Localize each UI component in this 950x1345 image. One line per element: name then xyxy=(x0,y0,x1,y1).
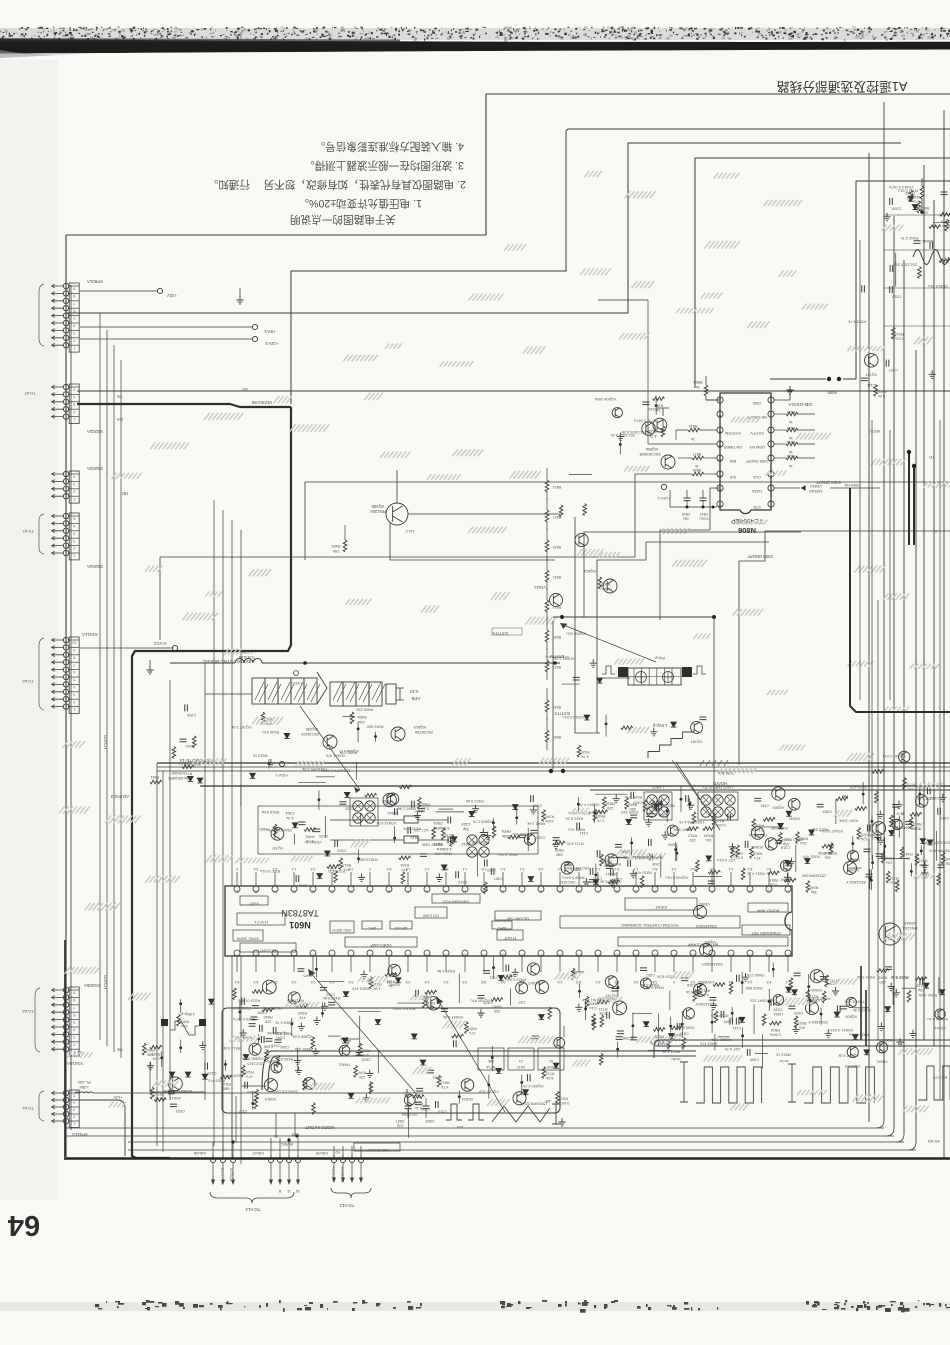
svg-text:R640: R640 xyxy=(493,1004,502,1008)
svg-text:1: 1 xyxy=(73,417,75,421)
ground xyxy=(472,805,479,813)
wire xyxy=(509,988,511,1005)
resistor xyxy=(571,968,575,980)
resistor xyxy=(261,712,265,724)
svg-text:0.047u: 0.047u xyxy=(770,1033,782,1037)
IC N601 bottom pin 1 xyxy=(234,950,240,956)
coil box LAB02 xyxy=(647,795,657,805)
svg-text:R331 470: R331 470 xyxy=(588,810,606,815)
wire xyxy=(936,831,938,861)
resistor R808 xyxy=(705,376,707,385)
IC N601 function block DET4D xyxy=(390,921,412,929)
ground xyxy=(312,1048,319,1056)
IC N601 top pin 53 xyxy=(291,886,297,892)
transistor xyxy=(527,963,539,975)
IC N601 function block SYNC SEPA xyxy=(233,930,263,941)
IC N806 pin 14 xyxy=(717,471,723,477)
svg-text:0.5: 0.5 xyxy=(311,980,316,984)
wire xyxy=(359,814,361,826)
resistor xyxy=(592,1014,596,1026)
connector XSL07 xyxy=(268,1157,273,1162)
svg-text:R902: R902 xyxy=(878,976,887,980)
waveform pulse d=4u xyxy=(696,1067,762,1103)
resistor xyxy=(857,827,861,839)
svg-text:R406 22u: R406 22u xyxy=(892,826,909,831)
resistor xyxy=(762,1014,766,1026)
junction xyxy=(179,1002,182,1005)
supply Z-AZL xyxy=(252,336,257,341)
svg-text:VQ806 5.6k: VQ806 5.6k xyxy=(292,1035,313,1040)
resistor xyxy=(736,845,740,857)
junction xyxy=(160,1056,163,1059)
svg-text:11: 11 xyxy=(287,1189,291,1193)
svg-text:10u: 10u xyxy=(683,517,689,521)
ground xyxy=(888,983,895,991)
diode xyxy=(498,975,504,980)
wire xyxy=(755,1052,768,1054)
capacitor xyxy=(185,704,188,711)
svg-text:30: 30 xyxy=(729,890,733,894)
resistor xyxy=(559,505,563,517)
svg-text:C318: C318 xyxy=(687,983,696,987)
wire xyxy=(795,844,797,871)
resistor xyxy=(600,854,604,866)
IC N806 TC4094BP body xyxy=(720,393,771,514)
IC N601 function block H.V/,T.L xyxy=(237,913,285,925)
svg-text:55: 55 xyxy=(254,890,258,894)
resistor xyxy=(768,871,780,875)
diode xyxy=(927,840,933,845)
resistor xyxy=(796,832,800,844)
connector XS204A xyxy=(69,513,79,560)
svg-text:行通知。: 行通知。 xyxy=(208,178,250,191)
junction xyxy=(593,811,596,814)
svg-text:1: 1 xyxy=(770,505,772,509)
ground xyxy=(240,1029,247,1037)
diode xyxy=(653,804,659,809)
svg-text:7: 7 xyxy=(73,301,75,305)
svg-text:R835: R835 xyxy=(553,635,562,639)
diode xyxy=(920,839,926,844)
supply Z-AB xyxy=(252,324,257,329)
junction xyxy=(630,842,633,845)
svg-text:R-Y: R-Y xyxy=(896,811,903,816)
svg-text:+12V-2: +12V-2 xyxy=(265,341,279,346)
resistor xyxy=(789,978,793,990)
svg-text:4: 4 xyxy=(73,685,75,689)
svg-text:VD647: VD647 xyxy=(170,1096,182,1100)
IC N601 function block VERT xyxy=(240,896,268,905)
diode xyxy=(805,858,811,863)
svg-text:1k: 1k xyxy=(906,856,910,860)
resistor R405 10k xyxy=(344,525,346,540)
svg-text:VQ787 100k: VQ787 100k xyxy=(422,843,444,848)
connector XS411A xyxy=(69,637,79,714)
svg-text:R406: R406 xyxy=(305,835,314,839)
svg-text:R529 220: R529 220 xyxy=(620,810,638,815)
resistor R404 12k xyxy=(350,712,354,724)
resistor xyxy=(929,225,941,229)
transistor xyxy=(461,1079,474,1092)
svg-text:VD841: VD841 xyxy=(811,988,823,992)
capacitor xyxy=(168,1091,175,1094)
junction xyxy=(862,793,865,796)
IC N601 bottom pin 20 xyxy=(595,950,601,956)
resistor xyxy=(763,818,775,822)
svg-text:R842 4.7k: R842 4.7k xyxy=(901,236,919,241)
wire L306 right xyxy=(93,1092,490,1094)
svg-text:VQ787: VQ787 xyxy=(691,739,703,743)
capacitor xyxy=(261,1036,264,1043)
wire xyxy=(902,987,916,989)
svg-text:VQ806 2.7k: VQ806 2.7k xyxy=(473,819,494,824)
svg-text:680: 680 xyxy=(556,852,562,856)
resistor xyxy=(311,1037,315,1049)
svg-text:12: 12 xyxy=(718,445,722,449)
svg-text:+12V-1: +12V-1 xyxy=(290,681,302,686)
svg-text:WV60C: WV60C xyxy=(280,1142,293,1146)
wire xyxy=(895,253,897,287)
svg-text:1.4: 1.4 xyxy=(463,867,468,871)
resistor xyxy=(401,872,405,884)
ground xyxy=(147,1062,154,1070)
capacitor xyxy=(313,829,320,832)
diode VD813 1551N3 xyxy=(774,487,800,489)
junction xyxy=(619,443,622,446)
wire YS xyxy=(77,390,950,392)
capacitor xyxy=(245,1082,248,1089)
resistor xyxy=(418,797,422,809)
svg-text:3: 3 xyxy=(73,1035,75,1039)
resistor xyxy=(891,327,895,339)
arrow from staircase down xyxy=(676,762,720,830)
diode xyxy=(597,678,603,683)
transistor xyxy=(262,980,276,994)
resistor xyxy=(303,1078,307,1090)
IC N601 bottom pin 14 xyxy=(481,950,487,956)
resistor xyxy=(945,219,949,231)
svg-text:0: 0 xyxy=(369,867,371,871)
wire xyxy=(660,854,662,877)
diode xyxy=(325,851,331,856)
svg-text:U27: U27 xyxy=(518,1000,525,1004)
svg-text:C519: C519 xyxy=(438,1109,447,1113)
svg-text:VD813 22u: VD813 22u xyxy=(928,284,947,289)
border wire second xyxy=(291,129,950,404)
svg-text:VD841: VD841 xyxy=(606,872,618,876)
capacitor xyxy=(615,844,622,847)
svg-text:R711: R711 xyxy=(184,772,193,776)
svg-text:4: 4 xyxy=(73,1101,75,1105)
wire thick vertical to HD/VD board xyxy=(132,407,291,1158)
capacitor xyxy=(436,1101,439,1108)
svg-text:R331 0.01u: R331 0.01u xyxy=(624,855,644,860)
IC N601 top pin 33 xyxy=(671,886,677,892)
svg-text:VD840: VD840 xyxy=(903,921,916,926)
svg-text:C329: C329 xyxy=(461,822,470,826)
junction xyxy=(918,793,921,796)
resistor xyxy=(220,1075,232,1079)
arrow long diagonal to pin xyxy=(310,972,420,1098)
IC N806 pin 1 xyxy=(768,501,774,507)
capacitor xyxy=(914,241,921,244)
svg-text:VIDEO AMP: VIDEO AMP xyxy=(370,943,392,948)
svg-text:C341: C341 xyxy=(621,849,630,853)
wire pin9 top xyxy=(706,399,720,401)
resistor xyxy=(369,977,373,989)
wires from video box to XSL07 xyxy=(275,1113,277,1138)
junction xyxy=(674,848,677,851)
svg-text:R902: R902 xyxy=(146,1048,155,1052)
capacitor xyxy=(630,1037,637,1040)
svg-text:R529: R529 xyxy=(151,1052,160,1056)
svg-text:2SA1015GY: 2SA1015GY xyxy=(701,962,723,966)
bracket connector XS204A xyxy=(39,514,44,554)
svg-text:35: 35 xyxy=(634,890,638,894)
capacitor xyxy=(616,1037,623,1040)
supply +12V-1 left xyxy=(279,761,284,766)
svg-text:R406 220: R406 220 xyxy=(355,708,373,713)
bottom bus rounded corners to right verticals xyxy=(876,1120,884,1128)
capacitor xyxy=(484,859,487,866)
IC N601 top pin 50 xyxy=(348,886,354,892)
svg-text:R842 100k: R842 100k xyxy=(918,993,937,998)
svg-text:12k: 12k xyxy=(359,720,365,724)
IC N601 bottom pin 15 xyxy=(500,950,506,956)
svg-text:DATA: DATA xyxy=(752,489,762,493)
R-Y B-Y double bus xyxy=(660,1039,950,1041)
junction xyxy=(224,1063,227,1066)
svg-text:R831: R831 xyxy=(553,575,562,579)
capacitor xyxy=(553,838,560,841)
ground xyxy=(878,1023,885,1031)
svg-text:R711: R711 xyxy=(906,783,915,787)
svg-text:47u: 47u xyxy=(344,867,350,871)
ground after triangle xyxy=(558,1118,565,1126)
svg-text:XS203A: XS203A xyxy=(87,466,103,471)
svg-text:3: 3 xyxy=(73,331,75,335)
diode xyxy=(792,990,798,995)
svg-text:4: 4 xyxy=(73,395,75,399)
IC N601 bottom pin 30 xyxy=(785,950,791,956)
ground xyxy=(909,1030,916,1038)
svg-text:R529 47u: R529 47u xyxy=(208,1079,225,1084)
IC N601 top pin 31 xyxy=(709,886,715,892)
resistor xyxy=(730,846,734,858)
junction xyxy=(393,837,396,840)
svg-text:1.4: 1.4 xyxy=(634,867,639,871)
svg-text:6: 6 xyxy=(73,309,75,313)
svg-text:2SC1815 8.2k: 2SC1815 8.2k xyxy=(611,433,636,438)
capacitor xyxy=(928,787,931,794)
resistor R820 xyxy=(704,473,717,475)
svg-text:4. 输入装配方标准连影象信号。: 4. 输入装配方标准连影象信号。 xyxy=(315,140,465,153)
ground xyxy=(921,861,928,869)
svg-text:R434: R434 xyxy=(715,818,724,822)
transistor xyxy=(288,992,300,1004)
svg-text:R434: R434 xyxy=(904,852,913,856)
wire xyxy=(572,971,585,973)
svg-text:DSM ONOFF: DSM ONOFF xyxy=(815,480,841,485)
resistor xyxy=(182,765,194,769)
resistor xyxy=(829,843,833,855)
wire xyxy=(854,1007,869,1009)
svg-text:R529 2.7k: R529 2.7k xyxy=(624,795,642,800)
svg-text:关于电路图的一点说明: 关于电路图的一点说明 xyxy=(290,213,396,226)
resistor xyxy=(903,778,907,790)
resistor xyxy=(369,1082,373,1094)
svg-text:220: 220 xyxy=(922,211,928,215)
ground xyxy=(199,1042,206,1050)
IC N601 top pin 42 xyxy=(500,886,506,892)
right column horiz stubs xyxy=(884,214,950,216)
diode xyxy=(908,196,914,201)
resistor xyxy=(713,983,725,987)
svg-text:36: 36 xyxy=(615,890,619,894)
svg-text:C429: C429 xyxy=(207,1071,216,1075)
wire LD06 xyxy=(170,662,235,664)
IC N601 bottom pin 12 xyxy=(443,950,449,956)
svg-text:3: 3 xyxy=(73,692,75,696)
svg-text:R823: R823 xyxy=(553,485,562,489)
transistor xyxy=(303,1078,315,1090)
ground xyxy=(321,1002,328,1010)
capacitor xyxy=(530,830,537,833)
svg-text:C407: C407 xyxy=(494,876,503,880)
outer border wire top right xyxy=(66,94,950,1157)
svg-text:15: 15 xyxy=(718,489,722,493)
right bus verticals xyxy=(868,153,870,1122)
wire xyxy=(408,1104,410,1137)
svg-text:64: 64 xyxy=(8,1209,40,1241)
pulse block 1.8Vp-p left xyxy=(161,1019,168,1026)
IC N601 function block TX CONT xyxy=(240,943,296,952)
svg-text:R813 5.6k: R813 5.6k xyxy=(223,1046,241,1051)
ground xyxy=(477,1009,484,1017)
transistor xyxy=(772,787,785,800)
resistor xyxy=(432,827,436,839)
svg-text:XS410A: XS410A xyxy=(67,1061,83,1066)
wire crystal xyxy=(330,819,404,821)
wire xyxy=(569,473,592,475)
transistor xyxy=(264,1079,277,1092)
transistor xyxy=(865,354,878,367)
capacitor xyxy=(863,849,870,852)
transistor xyxy=(691,721,703,733)
bus HD/VD xyxy=(200,785,950,787)
svg-text:R711: R711 xyxy=(599,1007,608,1011)
svg-text:C318: C318 xyxy=(280,1045,289,1049)
svg-text:4.7k: 4.7k xyxy=(581,755,588,759)
scan black bar xyxy=(0,39,950,54)
capacitor C512 xyxy=(448,837,451,844)
svg-text:XP801A: XP801A xyxy=(87,279,103,284)
diode xyxy=(375,1019,381,1024)
resistor R815 xyxy=(662,420,664,426)
capacitor C527 27p xyxy=(405,1106,412,1109)
IC N601 bottom pin 11 xyxy=(424,950,430,956)
svg-text:CLA: CLA xyxy=(753,475,761,479)
resistor xyxy=(334,871,338,883)
capacitor xyxy=(296,875,299,882)
diode xyxy=(584,715,590,720)
IC N601 function block BRT BLK CLAMP xyxy=(618,937,788,946)
svg-text:C810: C810 xyxy=(940,816,949,820)
connector XS405A bottom xyxy=(69,987,79,1056)
IC N601 top pin 51 xyxy=(329,886,335,892)
svg-text:1k: 1k xyxy=(447,838,451,842)
resistor R742 300 xyxy=(921,178,923,186)
svg-text:+12V-1 4: +12V-1 4 xyxy=(331,1166,335,1181)
svg-text:U27 220: U27 220 xyxy=(413,828,429,833)
svg-text:VQ430 5.6k: VQ430 5.6k xyxy=(267,1031,288,1036)
svg-text:44: 44 xyxy=(463,890,467,894)
junction xyxy=(267,762,270,765)
svg-text:R813: R813 xyxy=(342,863,351,867)
svg-text:TX CONT: TX CONT xyxy=(259,948,277,953)
ground xyxy=(294,1056,301,1064)
svg-text:11: 11 xyxy=(718,431,722,435)
transistor VQ806 2SC1815BR xyxy=(661,455,675,469)
IC N601 bottom pin 7 xyxy=(348,950,354,956)
ground xyxy=(792,1026,799,1034)
svg-text:220: 220 xyxy=(265,1019,271,1023)
junction xyxy=(257,1038,260,1041)
diode xyxy=(348,1093,354,1098)
svg-text:2: 2 xyxy=(73,489,75,493)
wire xyxy=(477,852,479,876)
svg-text:C407: C407 xyxy=(889,368,898,372)
svg-text:R818: R818 xyxy=(753,852,762,856)
resistor xyxy=(241,1065,245,1077)
wire xyxy=(933,222,950,224)
svg-text:10: 10 xyxy=(296,1189,300,1193)
resistor xyxy=(900,847,904,859)
svg-text:VD847: VD847 xyxy=(698,902,710,906)
transistor xyxy=(388,964,400,976)
capacitor xyxy=(650,854,653,861)
resistor xyxy=(254,1097,258,1109)
capacitor xyxy=(642,402,649,405)
svg-text:DSM H/L: DSM H/L xyxy=(843,483,860,488)
svg-text:R813 1k: R813 1k xyxy=(253,753,268,758)
svg-text:S/S: S/S xyxy=(729,475,736,479)
IC N601 top pin 56 xyxy=(234,886,240,892)
svg-text:+12V-1: +12V-1 xyxy=(657,496,671,501)
capacitor xyxy=(631,792,634,799)
junction xyxy=(491,1056,494,1059)
resistor xyxy=(698,984,702,996)
capacitor xyxy=(876,854,883,857)
svg-text:VQ806: VQ806 xyxy=(845,1014,857,1018)
diode xyxy=(706,856,712,861)
svg-text:0.01u: 0.01u xyxy=(894,337,904,341)
capacitor xyxy=(656,805,659,812)
svg-text:OUT: OUT xyxy=(290,1132,298,1136)
svg-text:1: 1 xyxy=(73,554,75,558)
svg-text:C341: C341 xyxy=(760,803,769,807)
IC N601 top pin 52 xyxy=(310,886,316,892)
transistor xyxy=(892,819,902,829)
capacitor right of R742 xyxy=(941,192,948,195)
wire xyxy=(242,1085,266,1087)
resistor xyxy=(910,812,922,816)
resistor xyxy=(643,800,647,812)
resistor R341 xyxy=(150,780,162,784)
svg-text:470: 470 xyxy=(402,867,408,871)
svg-text:5: 5 xyxy=(73,678,75,682)
resistor xyxy=(602,797,606,809)
